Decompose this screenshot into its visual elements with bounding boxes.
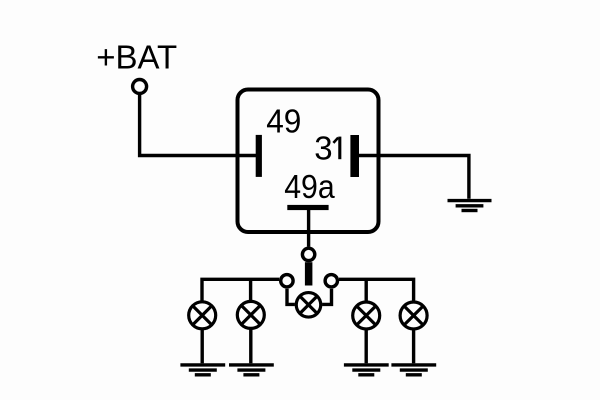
ground (lamp L4): [391, 365, 436, 375]
wire lamp L1 to ground: [200, 330, 203, 364]
ground (lamp L2): [229, 365, 274, 375]
lamp L4: [400, 302, 427, 329]
svg-text:49: 49: [266, 103, 301, 140]
ground (relay, pin 31): [448, 201, 492, 211]
lamp L5 pilot (centre): [296, 293, 321, 318]
wire left bus to lamps L1 and L2: [202, 279, 279, 300]
svg-text:49a: 49a: [284, 168, 335, 205]
terminal (connector, right): [325, 275, 337, 287]
wire lamp L2 to ground: [249, 330, 252, 364]
terminal (connector, left): [281, 275, 293, 287]
svg-text:+BAT: +BAT: [96, 38, 177, 75]
relay K1 outline: [238, 90, 379, 233]
lamp L1: [189, 302, 216, 329]
wire from right terminal down to pilot lamp: [322, 289, 331, 305]
lamp L3: [353, 302, 380, 329]
lamp L2: [237, 301, 264, 328]
wire lamp L3 to ground: [365, 330, 368, 364]
wire branch to lamp L3: [365, 279, 368, 300]
terminal +BAT: [133, 80, 147, 94]
ground (lamp L3): [344, 365, 389, 375]
terminal (connector, centre top): [302, 248, 314, 260]
wire from pin 49a to connector terminal: [307, 210, 310, 247]
wire right bus to lamps L3 and L4: [339, 279, 414, 300]
connector blade (thick stub to pilot lamp): [305, 262, 313, 285]
ground (lamp L1): [180, 365, 225, 375]
wire from left terminal down to pilot lamp: [287, 289, 295, 305]
pin 49a contact bar: [287, 205, 328, 210]
wire branch to lamp L2: [249, 279, 252, 300]
wire from +BAT terminal to pin 49: [140, 95, 257, 156]
svg-text:3: 3: [314, 129, 332, 166]
pin 49 contact bar: [256, 135, 262, 177]
wire lamp L4 to ground: [412, 330, 415, 364]
pin 31 contact bar: [350, 135, 359, 177]
wire from pin 31 to ground: [359, 156, 469, 199]
